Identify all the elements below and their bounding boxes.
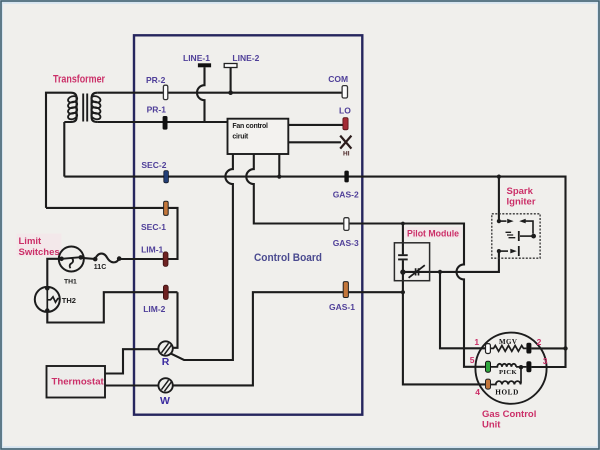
svg-text:Gas Control: Gas Control	[482, 409, 536, 420]
spark electrode lower	[518, 246, 520, 256]
thermostat box	[47, 366, 106, 398]
node GAS-1 pilot junction	[401, 290, 405, 294]
terminal 2	[526, 343, 531, 354]
wire TH1 to 11C	[81, 258, 95, 259]
svg-text:Switches: Switches	[19, 247, 60, 258]
wire PR-1 row to fan control	[97, 121, 227, 123]
wire TH2 bottom to LIM-2 row	[47, 292, 177, 322]
svg-text:GAS-2: GAS-2	[333, 190, 359, 200]
spark electrode	[518, 231, 520, 241]
Limit Switches label	[17, 234, 62, 257]
svg-text:SEC-1: SEC-1	[141, 222, 166, 232]
svg-text:Thermostat: Thermostat	[52, 377, 105, 388]
connector GAS-2	[344, 171, 348, 183]
wire TH1 to TH2	[47, 259, 61, 288]
pilot module box	[394, 243, 429, 281]
spark igniter bottom arrow	[499, 250, 508, 252]
control board outline	[134, 35, 362, 414]
svg-text:SEC-2: SEC-2	[141, 160, 166, 170]
terminal W	[158, 378, 172, 392]
pilot capacitor plates	[398, 255, 408, 259]
wire PICK to HOLD	[520, 367, 522, 383]
svg-text:LINE-1: LINE-1	[183, 53, 210, 63]
wire LINE-1 drop with hop	[197, 67, 204, 122]
connector LIM-2	[163, 285, 168, 299]
connector LO	[343, 118, 348, 130]
LINE-1 terminal	[198, 63, 211, 67]
pilot variable capacitor	[416, 268, 419, 275]
transformer secondary coil spine	[64, 93, 76, 122]
PICK coil	[490, 364, 526, 367]
svg-text:11C: 11C	[94, 264, 106, 271]
svg-text:HOLD: HOLD	[495, 388, 519, 396]
svg-text:Control Board: Control Board	[254, 252, 322, 264]
wire fan control to HI	[288, 141, 341, 143]
connector PR-2	[163, 85, 167, 99]
wire transformer secondary top to SEC-1 row	[46, 93, 71, 208]
svg-text:3: 3	[543, 356, 548, 366]
gas control unit circle	[475, 333, 546, 404]
connector SEC-1	[164, 201, 169, 215]
svg-text:TH2: TH2	[62, 296, 76, 305]
svg-text:ciruit: ciruit	[232, 133, 249, 140]
spark gap strokes	[506, 232, 516, 237]
LINE-2 terminal	[224, 64, 237, 68]
Pilot Module label	[404, 227, 462, 238]
terminal 1	[486, 344, 491, 354]
HOLD coil	[490, 381, 520, 384]
connector GAS-1	[343, 282, 348, 298]
MGV resistor	[490, 346, 526, 352]
spark igniter bottom pin	[497, 249, 501, 253]
wire fan control to LO	[288, 124, 343, 126]
wire fan pin2 to GAS-3 and gas valve terminal 5	[246, 154, 485, 367]
wire SEC-2 GAS-2 long row to gas valve terminal 2	[64, 177, 565, 349]
limit switch TH2	[35, 287, 60, 312]
wire gas valve terminal 2 to 3 jumper	[531, 348, 565, 367]
wire secondary bottom down to SEC-2 row	[63, 122, 65, 177]
wire 11C squiggle	[95, 254, 119, 263]
wire junction down to gas valve terminal 1	[440, 272, 486, 348]
wire fan pin1 to R terminal diagonal	[171, 154, 233, 360]
svg-text:GAS-1: GAS-1	[329, 302, 355, 312]
pilot node	[400, 269, 405, 274]
TH1 bimetal hook	[70, 258, 73, 268]
connector GAS-3	[344, 218, 349, 231]
wire pilot module drop from GAS-3 row	[402, 224, 404, 255]
svg-text:W: W	[160, 395, 170, 407]
svg-text:LINE-2: LINE-2	[232, 53, 259, 63]
node PICK junction	[519, 365, 523, 369]
svg-text:Transformer: Transformer	[53, 74, 106, 86]
connector LIM-1	[163, 252, 168, 267]
HI crossed-out terminal	[340, 136, 351, 149]
node 11C left	[93, 257, 98, 262]
svg-text:2: 2	[537, 337, 542, 347]
svg-text:Spark: Spark	[507, 186, 534, 197]
svg-text:Fan control: Fan control	[232, 123, 268, 130]
node LINE-2 junction	[228, 90, 233, 95]
svg-text:LIM-1: LIM-1	[141, 244, 163, 254]
transformer primary coil spine	[92, 93, 98, 122]
svg-text:1: 1	[474, 337, 479, 347]
spark igniter top arrows	[499, 220, 507, 222]
svg-text:R: R	[162, 356, 170, 368]
wire LIM-2 jumper down to R terminal	[173, 292, 178, 348]
transformer core	[83, 94, 87, 122]
wire thermostat to W	[105, 384, 158, 386]
connector COM	[342, 86, 347, 98]
terminal 5	[486, 361, 491, 372]
wire LINE-2 drop	[230, 67, 232, 92]
wire SEC-1 row jumper to LIM-1 row	[46, 208, 178, 259]
svg-text:5: 5	[470, 355, 475, 365]
wire thermostat to R	[105, 349, 158, 373]
wire pilot sensor row to spark igniter bottom	[403, 251, 499, 272]
node 11C right	[117, 256, 122, 261]
spark igniter right node	[531, 234, 536, 239]
terminal 3	[526, 361, 531, 372]
svg-text:Pilot Module: Pilot Module	[407, 228, 459, 239]
svg-text:PICK: PICK	[499, 369, 518, 376]
connector PR-1	[163, 116, 168, 130]
svg-text:PR-1: PR-1	[147, 105, 167, 115]
node fan pin3 junction	[277, 175, 281, 179]
svg-text:Limit: Limit	[19, 236, 43, 247]
terminal R	[158, 341, 172, 355]
TH2 internal element	[47, 288, 60, 310]
svg-text:Igniter: Igniter	[507, 197, 536, 208]
limit switch TH1	[59, 247, 84, 272]
terminal 4	[486, 379, 491, 389]
spark igniter box	[492, 214, 540, 258]
node sensor to terminal 1 junction	[438, 270, 442, 274]
wire TH1 blade	[62, 257, 81, 259]
connector SEC-2	[164, 171, 169, 183]
node spark igniter top junction	[497, 175, 501, 179]
svg-text:LIM-2: LIM-2	[143, 304, 165, 314]
fan control box	[228, 119, 289, 154]
wire spark igniter top drop	[498, 177, 500, 222]
transformer secondary loops	[91, 95, 102, 120]
wire W to GAS-1 row and pilot module	[173, 292, 403, 385]
node terminal 2 junction	[563, 346, 567, 350]
transformer primary loops	[67, 95, 78, 120]
svg-text:4: 4	[475, 387, 480, 397]
svg-text:TH1: TH1	[64, 278, 77, 285]
spark igniter top pin	[497, 219, 501, 223]
svg-text:GAS-3: GAS-3	[333, 238, 359, 248]
svg-text:LO: LO	[339, 106, 351, 116]
svg-text:Unit: Unit	[482, 420, 501, 431]
wire PR-2 row to COM	[97, 92, 343, 94]
wire fan pin3	[278, 154, 280, 177]
wire pilot module through to gas valve terminal 4	[403, 260, 486, 384]
node GAS-3 pilot junction	[401, 222, 405, 226]
svg-text:COM: COM	[328, 74, 348, 84]
svg-text:HI: HI	[343, 150, 350, 157]
svg-text:PR-2: PR-2	[146, 75, 166, 85]
